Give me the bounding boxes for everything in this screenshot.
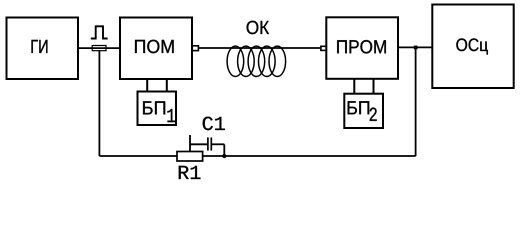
box GI (ГИ pulse generator)	[7, 18, 79, 80]
box BP2 (БП2 power supply)	[344, 94, 383, 128]
bottom rail right segment	[203, 155, 416, 157]
PROM input connector stub	[321, 46, 326, 50]
box OSC (ОСц oscilloscope)	[432, 5, 513, 89]
label ПРОМ	[337, 40, 386, 53]
label ОСц	[456, 38, 488, 54]
wire POM to PROM (through coil)	[198, 47, 321, 49]
box PROM (ПРОМ)	[326, 17, 398, 79]
wire to C1 left plate	[190, 143, 207, 145]
label С1	[203, 117, 225, 131]
pedestal connector POM to BP1	[146, 79, 148, 92]
label БП2	[348, 101, 370, 114]
wire: vertical from attenuator down to bottom rail	[98, 50, 100, 156]
capacitor C1 plates	[207, 137, 209, 150]
box POM (ПОМ)	[120, 18, 192, 80]
wire: vertical from junction down to bottom rail	[415, 47, 417, 156]
label ГИ	[31, 40, 47, 53]
coil OK (5 loops)	[227, 46, 286, 76]
wire down to rail	[223, 144, 225, 156]
attenuator box on wire (under pulse symbol)	[92, 46, 106, 51]
label ПОМ	[135, 40, 174, 53]
label БП1	[143, 101, 165, 114]
pedestal connector PROM to BP2	[353, 79, 355, 94]
label R1	[179, 166, 201, 179]
wire GI to POM	[78, 47, 120, 49]
pulse symbol Л	[91, 26, 108, 38]
label ОК	[247, 21, 269, 34]
box BP1 (БП1 power supply)	[138, 92, 177, 126]
resistor R1	[177, 152, 203, 162]
bottom rail left segment	[99, 155, 177, 157]
POM output connector stub	[192, 46, 198, 51]
junction dot at R1/C1	[222, 154, 226, 158]
junction dot node	[414, 46, 418, 50]
wire from C1 right plate	[212, 143, 224, 145]
wire PROM to OSC	[398, 46, 432, 48]
C1 branch: stub from R1 top	[189, 135, 191, 152]
